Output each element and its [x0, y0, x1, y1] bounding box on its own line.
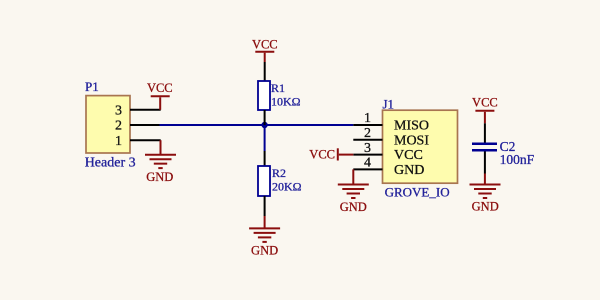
svg-text:GND: GND	[146, 170, 173, 184]
C2 bottom pin	[484, 151, 486, 173]
wire: junction down to R2	[264, 125, 266, 151]
svg-text:GND: GND	[394, 163, 424, 178]
R2 bottom pin	[264, 196, 266, 216]
R1 top pin	[264, 62, 266, 81]
svg-text:GND: GND	[340, 200, 367, 214]
resistor R1 body	[258, 81, 270, 110]
resistor R2 body	[258, 166, 270, 196]
ground GND below R2	[249, 216, 280, 242]
svg-text:R2: R2	[272, 166, 286, 180]
svg-text:2: 2	[364, 126, 371, 141]
wire: P1 pin2 to J1 pin1 (main net)	[160, 124, 354, 126]
svg-text:MOSI: MOSI	[394, 133, 429, 148]
power port VCC at P1 pin 3	[151, 96, 170, 110]
svg-text:4: 4	[364, 156, 371, 171]
svg-text:VCC: VCC	[252, 37, 278, 51]
svg-text:GND: GND	[251, 244, 278, 258]
ground GND below C2	[470, 174, 501, 199]
junction node	[261, 122, 267, 128]
power port VCC above C2	[475, 111, 494, 124]
svg-text:VCC: VCC	[309, 148, 335, 162]
svg-text:2: 2	[115, 119, 122, 134]
J1 pin 2	[353, 139, 382, 141]
svg-text:1: 1	[115, 134, 122, 149]
J1 pin 1	[353, 124, 382, 126]
svg-text:Header 3: Header 3	[85, 156, 136, 171]
svg-text:3: 3	[115, 103, 122, 118]
svg-text:3: 3	[364, 141, 371, 156]
ground GND at J1 pin 4	[338, 169, 369, 198]
power port VCC at J1 pin 3 (rotated)	[338, 148, 354, 160]
svg-text:1: 1	[364, 111, 371, 126]
svg-text:MISO: MISO	[394, 119, 429, 134]
R2 top pin	[264, 151, 266, 166]
P1 pin 3	[130, 109, 161, 111]
J1 pin 3	[353, 154, 382, 156]
capacitor C2 plates	[472, 144, 497, 150]
svg-text:VCC: VCC	[394, 148, 423, 163]
svg-text:10KΩ: 10KΩ	[271, 95, 301, 109]
P1 pin 2	[130, 124, 160, 126]
svg-text:R1: R1	[271, 81, 285, 95]
svg-text:GND: GND	[472, 200, 499, 214]
J1 pin 4	[353, 168, 382, 170]
svg-text:100nF: 100nF	[500, 152, 535, 167]
svg-text:VCC: VCC	[472, 95, 498, 109]
power port VCC above R1	[255, 52, 274, 62]
connector J1 body	[383, 110, 458, 183]
svg-text:P1: P1	[85, 79, 99, 94]
P1 pin 1	[130, 139, 161, 141]
svg-text:20KΩ: 20KΩ	[272, 180, 302, 194]
ground GND at P1 pin 1	[145, 140, 176, 168]
svg-text:J1: J1	[383, 97, 395, 112]
svg-text:VCC: VCC	[147, 81, 173, 95]
connector P1 body	[86, 96, 130, 153]
R1 bottom pin	[264, 110, 266, 125]
svg-text:GROVE_IO: GROVE_IO	[385, 184, 450, 199]
C2 top pin	[484, 123, 486, 142]
